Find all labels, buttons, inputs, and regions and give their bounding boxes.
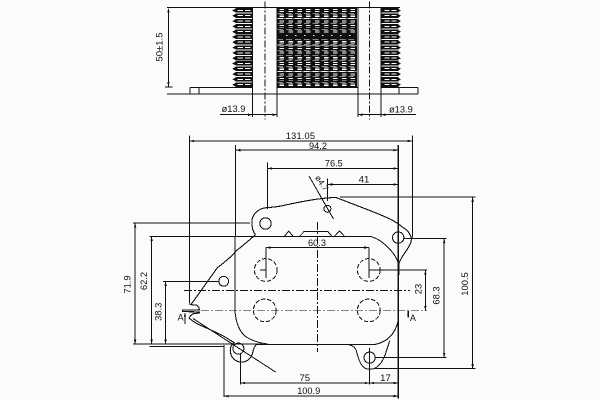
dimension 131.05	[190, 131, 413, 303]
section A-A cutting line through bottom ports	[201, 310, 427, 312]
left tube wall lines	[252, 8, 254, 117]
right tube centerline	[368, 2, 370, 120]
dimension 100.9	[224, 345, 398, 397]
leader line for ø4.7	[309, 176, 334, 219]
base plate of cooler	[167, 88, 418, 95]
dimension 60.3	[260, 238, 427, 278]
svg-text:71.9: 71.9	[122, 275, 133, 293]
bottom-right bolt hole	[364, 352, 375, 363]
small hole ø4.7	[324, 205, 331, 212]
right fin stack (serrated fins)	[382, 8, 401, 87]
dimension 75	[240, 348, 369, 385]
dimension 100.5	[340, 197, 476, 368]
svg-text:68.3: 68.3	[430, 286, 441, 304]
bottom-right mounting lobe	[346, 341, 390, 369]
svg-text:38.3: 38.3	[152, 303, 163, 321]
svg-text:ø4.7: ø4.7	[313, 173, 331, 193]
svg-text:60.3: 60.3	[308, 238, 326, 248]
svg-text:62.2: 62.2	[138, 272, 149, 290]
dimension 94.2	[236, 141, 398, 237]
svg-text:17: 17	[380, 373, 391, 384]
leader line through bottom-left bolt hole	[193, 319, 276, 373]
dimension 41	[328, 174, 398, 201]
dimension 68.3	[375, 239, 446, 358]
right reference extension line	[397, 145, 399, 398]
svg-text:A: A	[410, 313, 416, 323]
horizontal centerline of flange	[184, 289, 410, 291]
bottom-left bolt hole	[233, 343, 244, 354]
svg-text:94.2: 94.2	[309, 141, 327, 151]
dark row of fin block	[278, 33, 358, 39]
inner boss outline (rounded)	[235, 236, 268, 344]
dimension ø13.9 left tube	[220, 104, 277, 116]
dimension ø13.9 right tube	[358, 105, 416, 116]
four inner oil ports (hidden/dashed)	[254, 259, 277, 282]
svg-text:41: 41	[359, 174, 370, 185]
section marker A right	[407, 311, 416, 323]
left tube centerline	[264, 2, 266, 120]
flange outer gasket outline	[182, 198, 411, 363]
dimension 23	[413, 270, 427, 310]
oil cooler side view: top outline line	[167, 7, 400, 9]
dimension 17	[370, 373, 399, 384]
left tab small hole	[219, 276, 229, 286]
svg-text:ø13.9: ø13.9	[389, 105, 413, 115]
top-left bolt hole	[260, 218, 271, 229]
svg-text:131.05: 131.05	[286, 131, 315, 141]
svg-text:100.5: 100.5	[459, 272, 470, 295]
svg-text:100.9: 100.9	[297, 386, 320, 396]
right lobe bolt hole	[393, 232, 404, 243]
boss top edge	[235, 235, 370, 237]
right tube wall lines	[357, 8, 359, 117]
left fin stack (serrated fins)	[232, 8, 252, 87]
dimension 62.2	[138, 236, 235, 346]
section marker A left	[178, 313, 186, 324]
dimension 38.3	[152, 281, 218, 344]
vertical centerline of flange	[317, 222, 319, 352]
dimension 71.9	[122, 223, 262, 344]
svg-text:50±1.5: 50±1.5	[155, 32, 166, 61]
middle louvered fin block	[278, 8, 358, 87]
svg-text:76.5: 76.5	[325, 158, 343, 168]
dimension 50±1.5 (cooler height)	[155, 8, 173, 87]
svg-text:75: 75	[299, 373, 310, 384]
svg-text:A: A	[178, 313, 184, 323]
svg-text:ø13.9: ø13.9	[222, 104, 246, 114]
castellated profile on boss top edge	[285, 231, 345, 236]
svg-text:23: 23	[413, 284, 424, 294]
dimension 76.5	[268, 158, 398, 209]
